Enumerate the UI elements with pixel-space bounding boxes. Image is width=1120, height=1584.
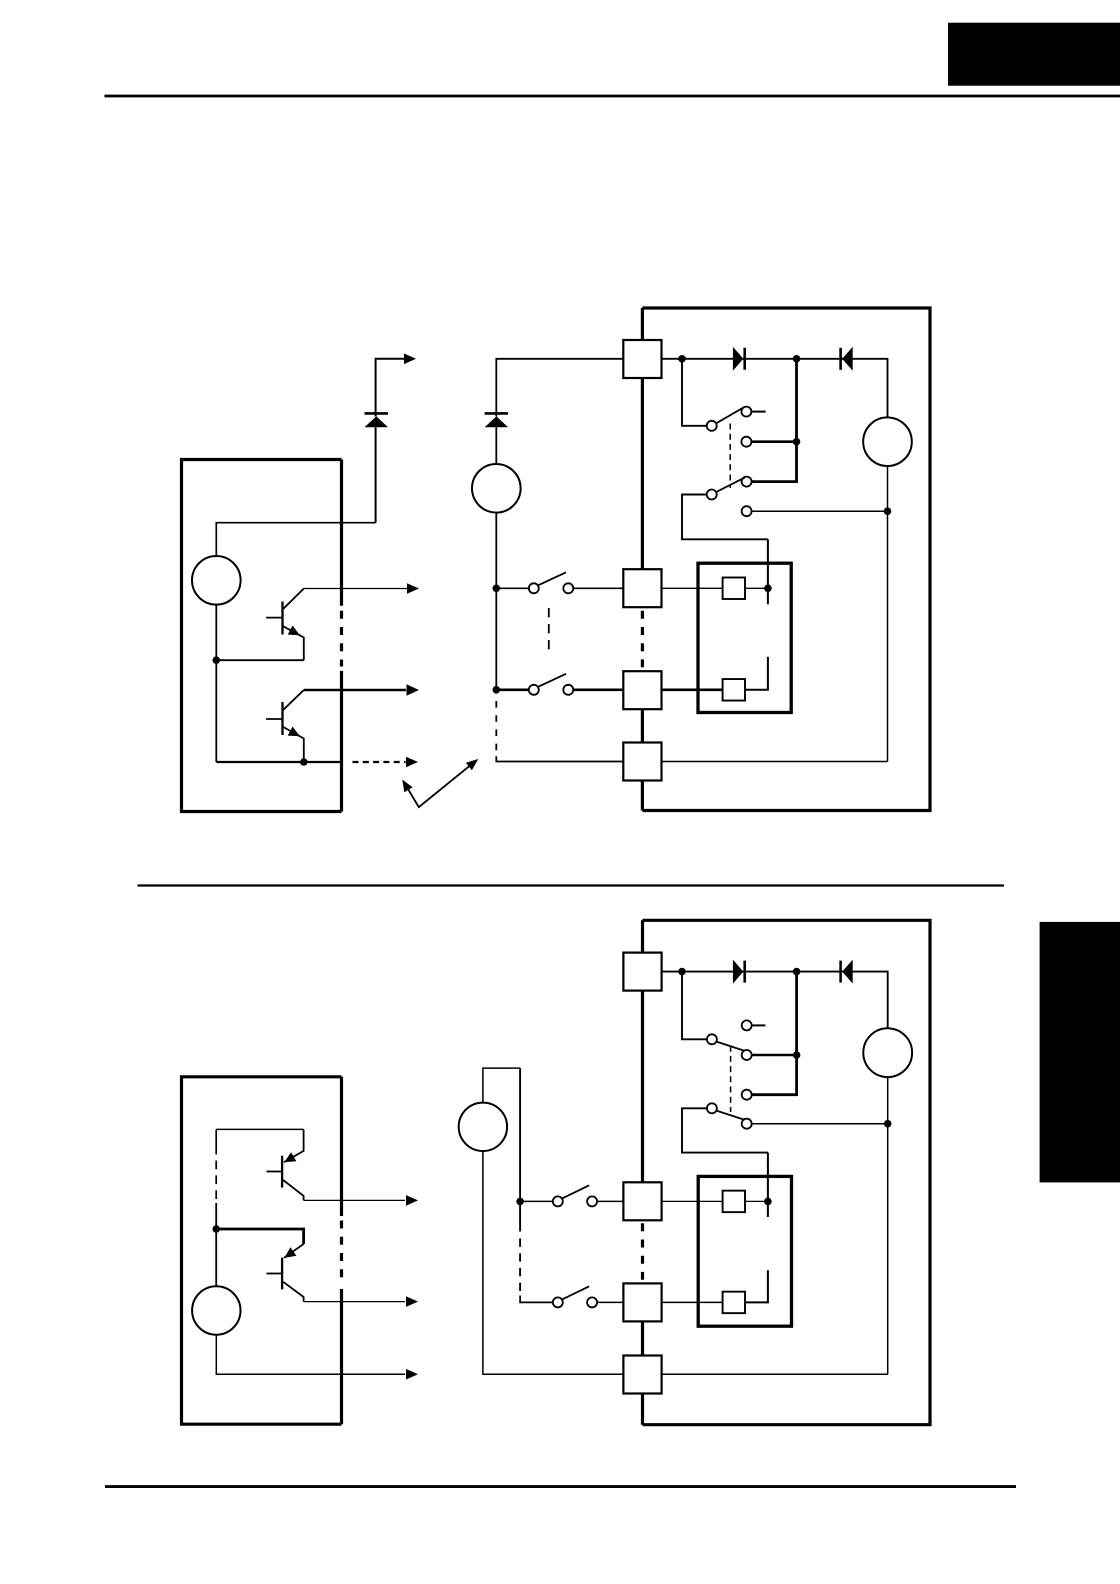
junction relay contact [764,585,772,593]
chapter tab (middle right) [1040,922,1120,1183]
relay coil D [723,1292,745,1314]
wire: T5 row [662,972,888,1029]
wire: selector feed (bottom) [682,972,707,1040]
wire: T8 row [662,1373,888,1375]
wire: T3 to relay coil bold [662,688,723,691]
wire: NC throw to load (bottom) [752,1123,888,1125]
wire: ext rail corner to row2 [520,1296,553,1303]
wire: bold rail [752,359,797,482]
wire: row1 left (bottom) [520,1200,553,1202]
switch S3 blade [562,1185,590,1198]
terminal T3 [623,671,661,709]
terminal T5 [623,953,661,991]
wire: T4 row [662,761,888,763]
switch S2 contact b [563,685,573,695]
load circle (top diagram) [863,417,912,466]
external supply circle (bottom) [459,1103,507,1151]
relay contact lower stub (bottom) [745,1270,768,1302]
selector throw mid (bottom) [742,1050,752,1060]
wire: row1 left [496,587,529,589]
wire: ext rail (bottom) [519,1068,521,1231]
terminal T6 [623,1182,661,1220]
wire: load bottom down to T8 row [887,1077,889,1374]
wire: ext rail to T4 [496,756,623,761]
wire: ext rail dashed [495,701,497,751]
transistor Q1 base lead [266,617,282,619]
relay coil B [723,679,745,701]
terminal T4 [623,743,661,781]
selector upper pivot [707,421,717,431]
footer rule [105,1485,1016,1488]
wire: mid throw to rail bold (bottom) [752,1054,797,1057]
wire: row1 right to T2 (bottom) [597,1200,623,1202]
wire: T7 to relay coil [662,1301,723,1303]
junction T1 row a [678,355,686,363]
transistor Q2 base lead [266,718,282,720]
transistor Q3 collector [283,1180,304,1200]
selector lower blade [716,478,745,492]
selector throw NO with tick [741,407,751,417]
junction T1 row b [793,355,801,363]
PLC output unit box (bottom diagram) [182,1077,342,1424]
transistor Q3 emitter with arrow [284,1129,304,1162]
transistor Q2 emitter with arrow [283,727,304,762]
junction bold rail/mid throw [793,438,801,446]
transistor Q4 base lead [267,1273,283,1275]
switch S4 contact b [587,1297,597,1307]
wire: output Yn bold with arrow [304,689,406,692]
relay box (bottom diagram) [698,1176,791,1326]
wire: selector feed [682,359,707,426]
selector link dashed [729,424,731,489]
header rule [105,95,1120,98]
terminal T7 [623,1283,661,1321]
selector throw NO with tick (bottom) [742,1020,752,1030]
junction Q2 emitter / COM [300,758,308,766]
terminal T1 [623,340,661,378]
transistor Q1 collector [283,589,304,609]
load circle (bottom diagram) [863,1028,912,1077]
junction load/NC wire (bottom) [884,1120,892,1128]
transistor Q4 base bar [281,1258,283,1290]
wire: coil C to contact [745,1200,768,1202]
wire: ext supply to T4 [483,1151,624,1374]
chapter tab (top right) [948,23,1120,86]
diode D1 (up) [365,416,389,427]
transistor Q3 base bar [281,1156,283,1188]
diode D3 (right) [733,347,743,371]
relay contact lower stub [745,657,768,690]
switch S3 contact a [553,1196,563,1206]
junction at supply rail [213,656,221,664]
transistor Q2 collector [283,690,304,710]
wire: lower pivot to relay (bottom) [682,1108,768,1152]
wire: row2 right to T3 bold [573,688,623,691]
wire: supply top to diode branch [216,523,375,556]
wire: T2 to relay coil [662,587,723,589]
diode D2 (up) [485,416,509,427]
wire: ext supply to T1 [496,359,623,464]
transistor Q3 base lead [267,1171,283,1173]
diode D4 (left) [842,347,853,371]
selector link dashed (bottom) [730,1046,732,1112]
junction rail/row2 [493,686,501,694]
junction bus [212,1225,220,1233]
wire: bold rail (bottom) [752,972,797,1095]
external supply circle (top diagram) [472,464,521,513]
relay coil C [723,1191,745,1213]
section divider rule [138,884,1005,886]
transistor Q4 collector [283,1282,304,1302]
relay box (top diagram) [698,563,791,712]
selector upper blade (bottom) [716,1042,744,1051]
wire: ext supply rail down [495,513,497,692]
switch S1 blade [538,572,566,585]
junction bold rail/mid throw (bottom) [793,1051,801,1059]
junction rail/row1 (bottom) [516,1198,524,1206]
wire: bus drop solid top [215,1129,217,1154]
wire: ext supply top corner [483,1068,520,1103]
external device box (bottom diagram) [643,920,931,1424]
switch S1 contact b [563,583,573,593]
wire: bus drop solid [215,1203,217,1229]
diode D6 (left) [842,960,853,984]
wire: row2 right to T3 (bottom) [597,1301,623,1303]
transistor Q4 emitter with arrow [284,1244,304,1258]
wire: load bottom down to T4 row [887,466,889,762]
ellipsis dashed between rows [548,608,550,650]
junction T5 row a [678,968,686,976]
selector upper pivot (bottom) [707,1034,717,1044]
wire: dashed bus drop [215,1161,217,1200]
junction load/NC wire [884,507,892,515]
switch S4 blade [562,1286,590,1299]
wire: COM dashed continuation with arrow [353,761,406,763]
external device box (top diagram) [642,308,930,811]
transistor Q2 base bar [281,702,283,735]
internal supply circle (top) [192,556,241,605]
switch S2 blade [538,674,566,687]
selector lower throw [742,477,752,487]
switch S2 contact a [529,685,539,695]
wire: bus to supply [215,1229,217,1286]
wire: T1 row [662,359,888,418]
wire: top bus [216,1128,303,1130]
annotation double arrow [403,760,476,807]
wire: mid throw to rail bold [751,440,796,443]
wire: row1 right to T2 [573,587,623,589]
wire: output Yn bottom with arrow [304,1301,405,1303]
wire: relay contact feed (bottom) [767,1153,769,1217]
wire: bold emitter bus Q4 [216,1229,303,1244]
switch S3 contact b [587,1196,597,1206]
selector lower pivot [707,490,717,500]
selector throw mid [741,437,751,447]
wire: relay contact feed [767,539,769,604]
wire: output Y0 with arrow [304,588,407,590]
junction rail/row1 [493,585,501,593]
junction relay contact (bottom) [764,1198,772,1206]
wire: ext rail dashed (bottom) [519,1239,521,1293]
terminal T8 [623,1356,661,1394]
selector upper blade [716,407,744,423]
selector throw NC (bottom) [742,1119,752,1129]
internal supply circle (bottom) [192,1286,240,1334]
wire: lower pivot to relay [682,495,768,540]
wire: T6 to relay coil [662,1200,723,1202]
transistor Q1 emitter with arrow [283,626,304,660]
switch S4 contact a [553,1297,563,1307]
selector throw NC [742,506,752,516]
PLC output unit box (top diagram) [182,460,342,812]
wire: output Y0 bottom with arrow [304,1199,405,1201]
wire: supply to COM arrow [216,1335,405,1375]
wire: supply bottom rail [215,605,217,762]
selector lower blade (bottom) [716,1111,744,1120]
selector lower throw (bottom) [742,1090,752,1100]
diode D5 (right) [733,960,743,984]
wire: NC throw to load [752,510,888,512]
wire: COM bottom (bold) [216,761,341,763]
junction T5 row b [793,968,801,976]
switch S1 contact a [529,583,539,593]
selector lower pivot (bottom) [707,1103,717,1113]
diode D1 branch wire [376,359,404,523]
terminal T2 [623,569,661,607]
wire: row2 left bold [496,688,529,691]
transistor Q1 base bar [281,602,283,635]
wire: coil A to contact [745,587,768,589]
wire: emitter return Q1 [216,659,303,661]
relay coil A [723,578,745,600]
